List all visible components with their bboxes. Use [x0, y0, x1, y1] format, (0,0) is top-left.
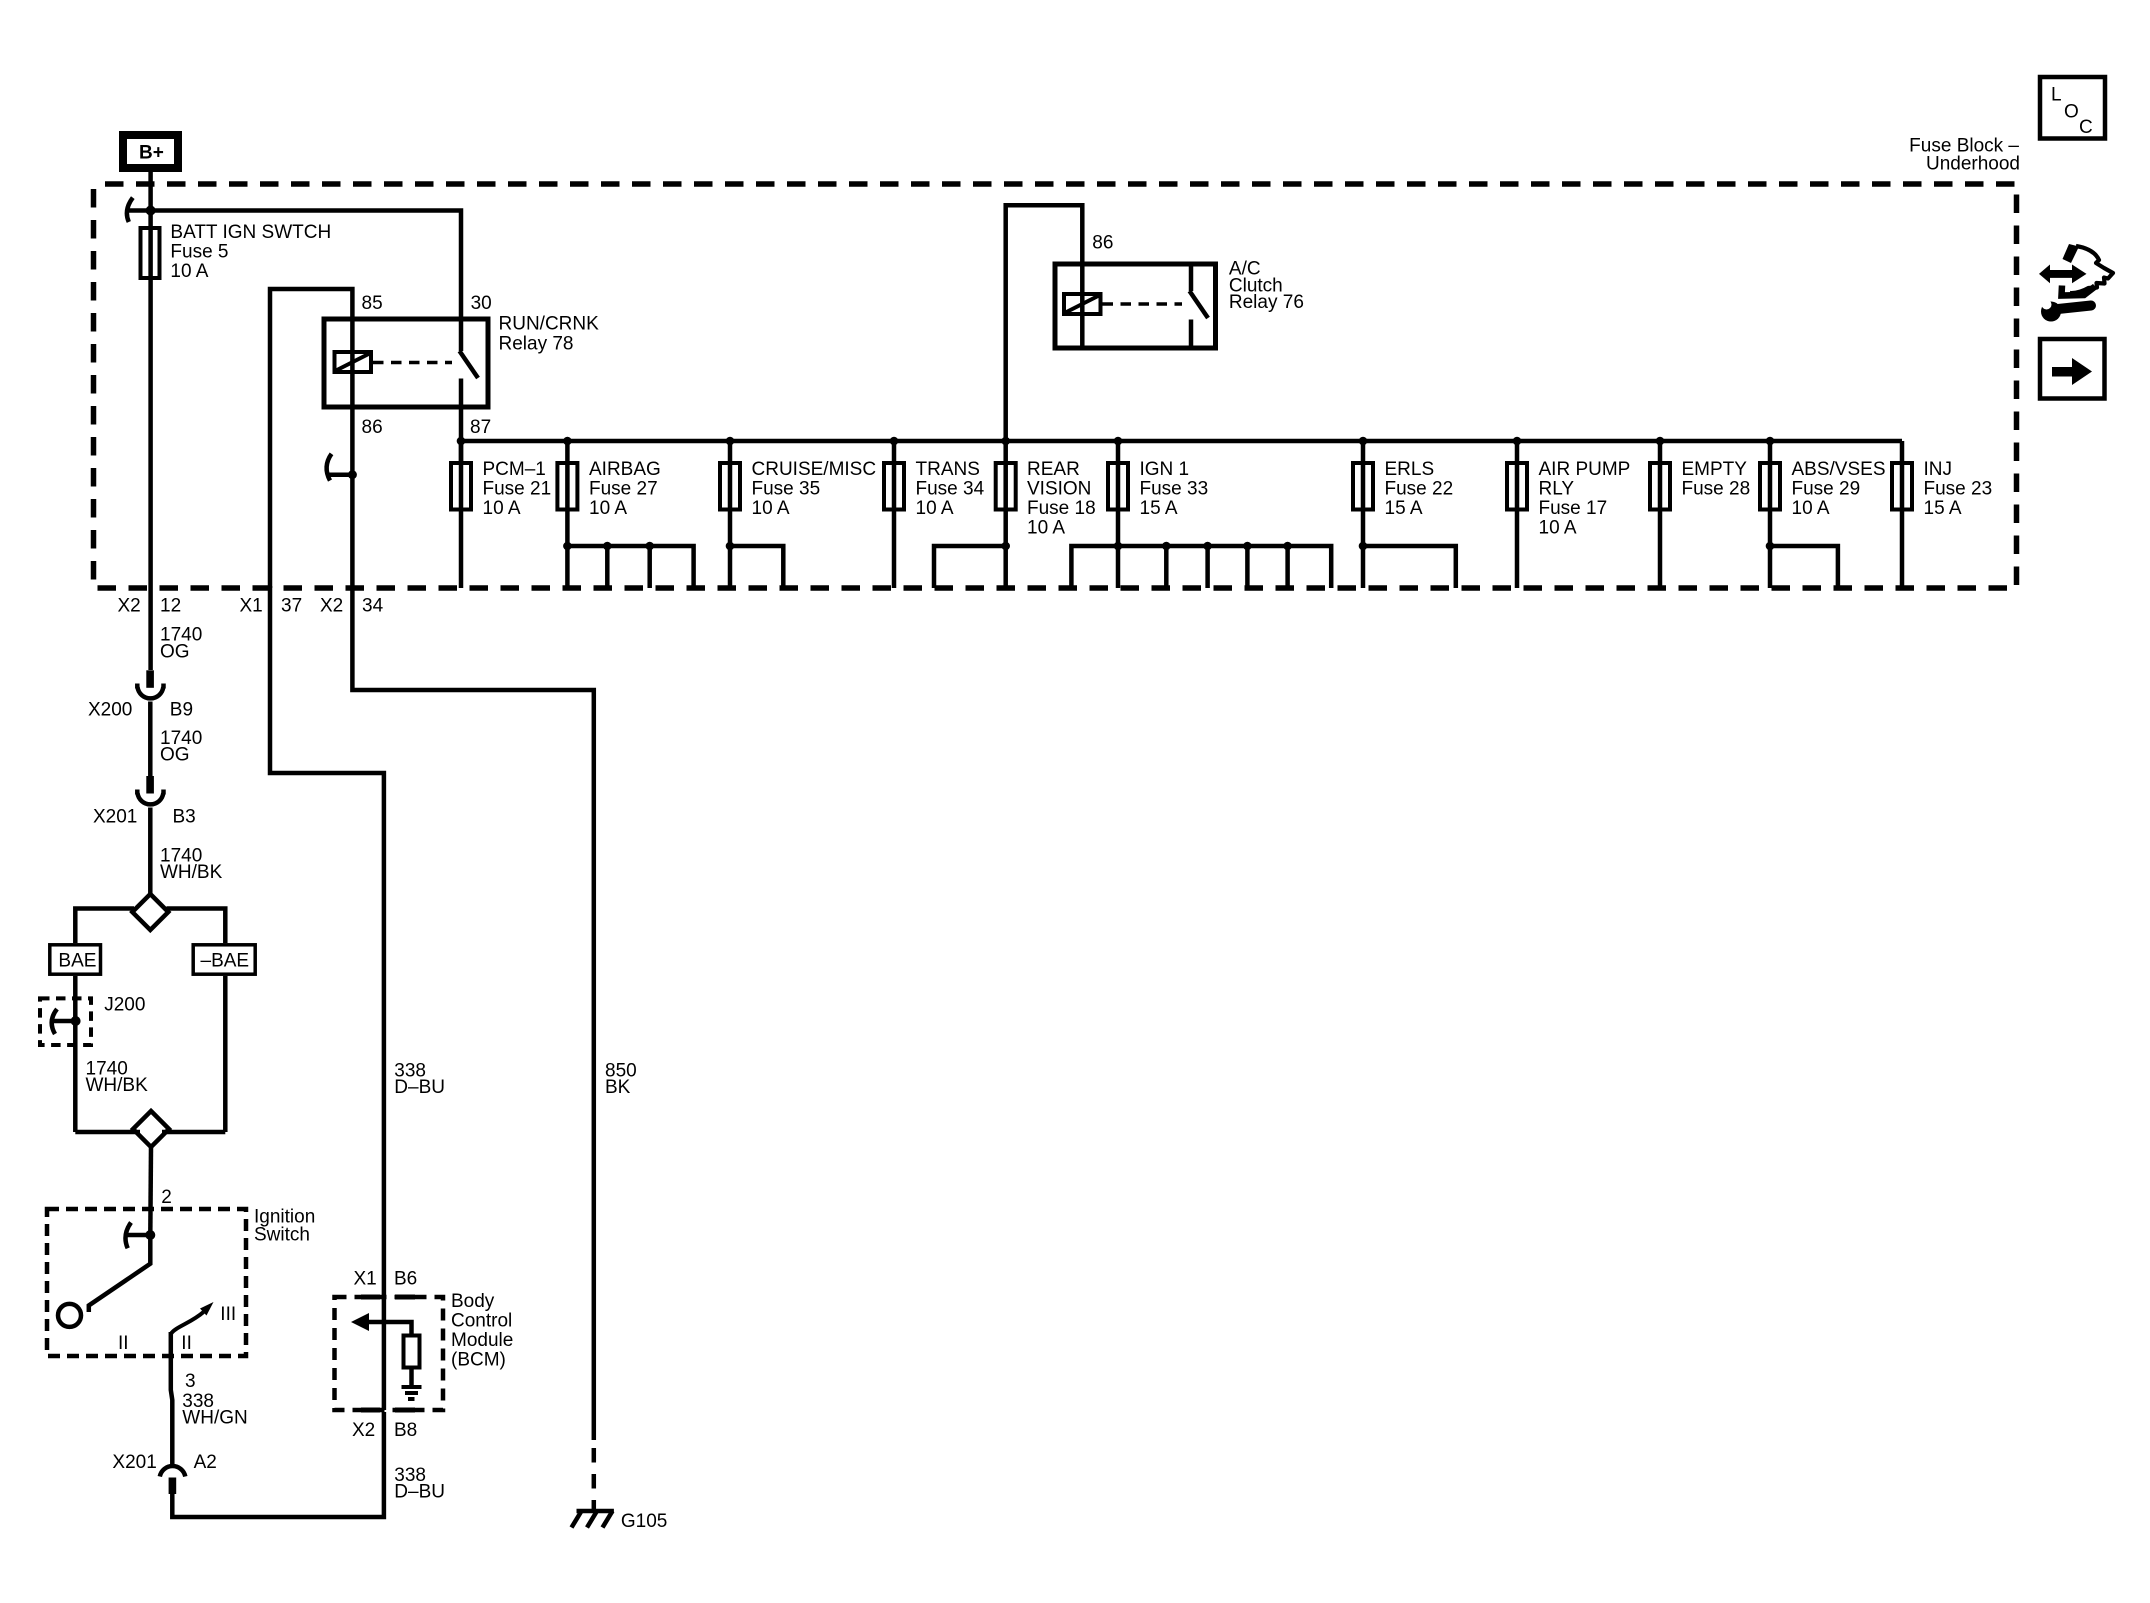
wire: diamond to BAE: [75, 909, 134, 944]
connector X201 A2 inline (flipped): [160, 1466, 186, 1494]
fuse F21 PCM-1: [451, 463, 471, 510]
svg-text:OG: OG: [160, 641, 190, 662]
svg-text:12: 12: [160, 596, 181, 617]
svg-text:D–BU: D–BU: [394, 1482, 445, 1503]
splice comb under IGN 1 fuse: [1071, 542, 1331, 588]
svg-text:87: 87: [470, 417, 491, 438]
LOC reference box: [2040, 77, 2105, 139]
svg-text:86: 86: [362, 417, 383, 438]
fuse F5 BATT IGN SWTCH: [141, 228, 160, 278]
svg-text:WH/BK: WH/BK: [160, 862, 223, 883]
svg-text:2: 2: [161, 1187, 172, 1208]
svg-text:AIR PUMP: AIR PUMP: [1539, 459, 1631, 480]
fuse F22 ERLS: [1353, 463, 1373, 510]
svg-text:30: 30: [471, 293, 492, 314]
svg-text:B8: B8: [394, 1420, 417, 1441]
fuse F29 ABS/VSES wire: [1768, 441, 1773, 588]
wire label 850 BK: [605, 1061, 637, 1099]
svg-text:III: III: [220, 1304, 236, 1325]
svg-text:C: C: [2079, 117, 2093, 138]
svg-text:15 A: 15 A: [1385, 498, 1423, 519]
fuse F33 IGN 1 wire: [1116, 441, 1121, 588]
dashed wire tail to G105: [592, 1448, 597, 1512]
svg-text:Fuse 22: Fuse 22: [1385, 478, 1454, 499]
wire: coil through pin 86 drop to X2-34 exit: [350, 319, 355, 588]
svg-text:B+: B+: [139, 143, 164, 164]
icon: forward arrow box: [2040, 339, 2105, 399]
relay 78 labels: [362, 293, 600, 438]
ignition switch pivot ring: [58, 1304, 81, 1327]
svg-text:EMPTY: EMPTY: [1682, 459, 1748, 480]
icon: service info turn-arrow with arrows and wrench: [2039, 244, 2113, 322]
svg-text:Fuse 5: Fuse 5: [170, 242, 228, 263]
terminal box -BAE: [193, 945, 255, 974]
wire label 1740 WH/BK: [160, 846, 223, 884]
svg-text:Fuse 33: Fuse 33: [1140, 478, 1209, 499]
fuse F28 EMPTY: [1650, 463, 1670, 510]
svg-text:Fuse 18: Fuse 18: [1027, 498, 1096, 519]
svg-text:Fuse 34: Fuse 34: [916, 478, 985, 499]
svg-text:ERLS: ERLS: [1385, 459, 1435, 480]
svg-text:10 A: 10 A: [170, 261, 208, 282]
fuse F33 IGN 1: [1108, 463, 1128, 510]
svg-text:Fuse 17: Fuse 17: [1539, 498, 1608, 519]
fuse F22 ERLS wire: [1361, 441, 1366, 588]
wire: pin 85 over to X1-37 drop: [270, 289, 352, 588]
svg-text:Body: Body: [451, 1291, 495, 1312]
relay 78 switch: [460, 322, 479, 406]
fuse F17 AIR PUMP RLY wire: [1515, 441, 1520, 588]
BCM input sense arrow: [351, 1313, 412, 1336]
splice diamond S1: [132, 894, 168, 930]
svg-text:A2: A2: [194, 1452, 217, 1473]
wire: BCM internal through conductor: [382, 1297, 387, 1410]
svg-text:L: L: [2051, 85, 2062, 106]
relay 76 coil wire: [1080, 264, 1085, 346]
relay K78 RUN/CRNK box: [324, 319, 488, 407]
BCM pin bars bottom: [361, 1408, 415, 1413]
fuse F35 CRUISE/MISC: [720, 463, 740, 510]
pin 2 label: [161, 1187, 172, 1208]
label: Fuse Block - Underhood: [1909, 136, 2020, 175]
fuse F18 REAR VISION wire: [1003, 441, 1008, 588]
svg-text:10 A: 10 A: [1539, 518, 1577, 539]
wire: X201 A2 to BCM pin B8: [172, 1412, 384, 1517]
ignition switch dashed box: [47, 1209, 246, 1356]
svg-text:G105: G105: [621, 1511, 667, 1532]
svg-text:Fuse 28: Fuse 28: [1682, 478, 1751, 499]
ignition switch moving contact blade: [89, 1235, 151, 1312]
svg-text:3: 3: [185, 1371, 196, 1392]
svg-text:Fuse 27: Fuse 27: [589, 478, 658, 499]
wire: X2-34 drop to G105: [352, 586, 593, 1440]
svg-text:Module: Module: [451, 1330, 513, 1351]
svg-text:IGN 1: IGN 1: [1140, 459, 1190, 480]
svg-text:10 A: 10 A: [483, 498, 521, 519]
junction dots on bus: [457, 437, 1775, 446]
connector clip on pin 86 wire: [327, 454, 357, 481]
relay 76 switch: [1190, 267, 1209, 346]
svg-text:Relay 78: Relay 78: [499, 333, 574, 354]
wire 1740 OG between connectors: [148, 702, 153, 777]
branch joins into diamond S2: [75, 1130, 225, 1135]
svg-text:OG: OG: [160, 745, 190, 766]
svg-text:WH/BK: WH/BK: [86, 1075, 149, 1096]
svg-text:86: 86: [1092, 232, 1113, 253]
svg-text:B9: B9: [170, 700, 193, 721]
relay 76 labels: [1092, 232, 1304, 313]
svg-text:WH/GN: WH/GN: [182, 1408, 247, 1429]
svg-text:37: 37: [281, 596, 302, 617]
splice under CRUISE/MISC fuse: [726, 542, 784, 588]
J200 label: [104, 995, 145, 1016]
svg-text:Switch: Switch: [254, 1225, 310, 1246]
connector exit labels X2-12 X1-37 X2-34: [118, 596, 384, 617]
pin 3 label: [185, 1371, 196, 1392]
fuse F23 INJ wire: [1900, 441, 1905, 588]
svg-text:II: II: [181, 1333, 192, 1354]
BCM name label: [451, 1291, 513, 1371]
svg-text:(BCM): (BCM): [451, 1350, 506, 1371]
relay 78 coil: [335, 352, 372, 372]
position labels II II III: [118, 1304, 236, 1354]
wire label 338 D-BU upper: [394, 1061, 445, 1099]
connector X200 B9 inline: [137, 670, 163, 698]
ignition switch position arc arrow: [171, 1302, 214, 1334]
fuse F28 EMPTY wire: [1658, 441, 1663, 588]
fuse F17 AIR PUMP RLY: [1507, 463, 1527, 510]
terminal box BAE: [50, 945, 101, 974]
BCM pin labels X1 B6: [354, 1269, 418, 1290]
svg-text:X201: X201: [93, 807, 137, 828]
fuse F34 TRANS wire: [892, 441, 897, 588]
wire: B+ feed down through fuse block: [148, 172, 153, 671]
svg-text:II: II: [118, 1333, 129, 1354]
svg-text:15 A: 15 A: [1140, 498, 1178, 519]
svg-text:RUN/CRNK: RUN/CRNK: [499, 314, 600, 335]
svg-text:TRANS: TRANS: [916, 459, 980, 480]
svg-text:X1: X1: [354, 1269, 377, 1290]
svg-text:PCM–1: PCM–1: [483, 459, 546, 480]
G105 label: [621, 1511, 667, 1532]
wire label 338 WH/GN: [182, 1391, 247, 1429]
fuse F27 AIRBAG wire: [565, 441, 570, 588]
svg-text:VISION: VISION: [1027, 478, 1091, 499]
wire: diamond to -BAE: [167, 909, 226, 944]
svg-text:INJ: INJ: [1924, 459, 1953, 480]
wire label 1740 OG upper: [160, 625, 202, 663]
fuse F21 PCM-1 wire: [459, 441, 464, 588]
svg-text:D–BU: D–BU: [394, 1077, 445, 1098]
svg-text:10 A: 10 A: [752, 498, 790, 519]
svg-text:RLY: RLY: [1539, 478, 1575, 499]
svg-text:X200: X200: [88, 700, 132, 721]
svg-text:85: 85: [362, 293, 383, 314]
svg-text:B3: B3: [173, 807, 196, 828]
fuse F35 CRUISE/MISC wire: [728, 441, 733, 588]
ground symbol G105: [572, 1511, 614, 1528]
svg-text:Fuse 29: Fuse 29: [1792, 478, 1861, 499]
fuse F18 REAR VISION: [996, 463, 1016, 510]
wire: horizontal feed to relay pin 30: [127, 211, 462, 317]
svg-text:BAE: BAE: [58, 951, 96, 972]
svg-text:10 A: 10 A: [589, 498, 627, 519]
svg-text:O: O: [2064, 102, 2079, 123]
BCM pin bars top: [361, 1295, 415, 1300]
svg-text:X2: X2: [352, 1420, 375, 1441]
B+ power terminal box: [123, 135, 178, 168]
svg-text:B6: B6: [394, 1269, 417, 1290]
fuse F34 TRANS: [884, 463, 904, 510]
J200 clip symbol: [52, 1009, 81, 1034]
splice under REAR VISION fuse: [934, 542, 1010, 588]
wire: -BAE down: [223, 976, 228, 1132]
splice under ERLS fuse: [1359, 542, 1456, 588]
svg-text:X2: X2: [118, 596, 141, 617]
relay 78 actuating link: [373, 361, 452, 365]
svg-text:10 A: 10 A: [916, 498, 954, 519]
wire: diamond S2 down to ignition switch pin 2: [148, 1147, 153, 1235]
wire: relay 78 pin 87 to fuse bus: [459, 409, 464, 461]
fuse F29 ABS/VSES: [1760, 463, 1780, 510]
relay 76 coil: [1064, 294, 1101, 314]
svg-text:X201: X201: [112, 1452, 156, 1473]
svg-text:Fuse 35: Fuse 35: [752, 478, 821, 499]
svg-text:34: 34: [362, 596, 384, 617]
wire: BAE down through J200: [73, 976, 78, 1132]
junction at B+ tap: [146, 206, 156, 216]
relay 76 actuating link: [1103, 302, 1183, 306]
svg-text:AIRBAG: AIRBAG: [589, 459, 661, 480]
BCM internal resistor: [404, 1336, 420, 1368]
ignition switch pin 2 clip: [125, 1223, 155, 1249]
svg-text:Fuse 23: Fuse 23: [1924, 478, 1993, 499]
ignition feed bus: [461, 439, 1902, 444]
relay K76 A/C clutch loop wire: [1006, 205, 1083, 441]
wire: X1-37 drop over to BCM pin B6: [270, 586, 384, 1299]
svg-text:–BAE: –BAE: [201, 951, 250, 972]
BCM pin labels X2 B8: [352, 1420, 417, 1441]
fuse F23 INJ: [1892, 463, 1912, 510]
splice comb under AIRBAG fuse: [563, 542, 693, 588]
relay K76 A/C Clutch box: [1055, 264, 1216, 348]
svg-text:Underhood: Underhood: [1926, 154, 2020, 175]
splice under ABS/VSES fuse: [1766, 542, 1838, 588]
BCM internal ground: [402, 1368, 422, 1400]
splice J200 dashed box: [40, 998, 91, 1045]
BCM dashed box: [335, 1297, 444, 1410]
svg-text:Fuse 21: Fuse 21: [483, 478, 552, 499]
wire: ignition pin 3 down: [171, 1332, 173, 1467]
fuse block underhood dashed boundary: [94, 184, 2017, 588]
svg-text:15 A: 15 A: [1924, 498, 1962, 519]
svg-text:BATT IGN SWTCH: BATT IGN SWTCH: [170, 222, 331, 243]
svg-text:REAR: REAR: [1027, 459, 1080, 480]
svg-text:J200: J200: [104, 995, 145, 1016]
svg-text:Relay 76: Relay 76: [1229, 292, 1304, 313]
splice diamond S2: [133, 1111, 169, 1147]
svg-text:CRUISE/MISC: CRUISE/MISC: [752, 459, 877, 480]
fuse F27 AIRBAG: [557, 463, 577, 510]
svg-text:10 A: 10 A: [1027, 518, 1065, 539]
ignition switch name label: [254, 1207, 315, 1246]
connector clip at B+ junction: [127, 198, 133, 222]
svg-text:10 A: 10 A: [1792, 498, 1830, 519]
svg-text:BK: BK: [605, 1077, 631, 1098]
wire label 1740 WH/BK lower: [86, 1059, 149, 1097]
wire label 338 D-BU lower: [394, 1465, 445, 1503]
wire 1740 WH/BK: [148, 808, 153, 895]
svg-text:X1: X1: [240, 596, 263, 617]
connector X201 B3 inline: [137, 776, 163, 804]
svg-text:X2: X2: [320, 596, 343, 617]
wire label 1740 OG lower: [160, 728, 202, 766]
svg-text:ABS/VSES: ABS/VSES: [1792, 459, 1886, 480]
svg-text:Control: Control: [451, 1311, 512, 1332]
